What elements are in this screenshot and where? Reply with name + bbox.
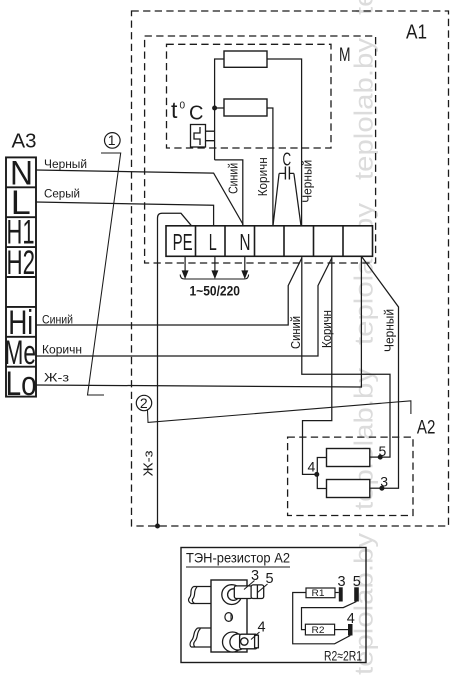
svg-text:Коричн: Коричн: [320, 310, 334, 348]
wire: windings left common: [215, 59, 224, 160]
legend schematic resistor R2: [305, 624, 334, 635]
wire L grey: A3.L to strip L: [36, 202, 214, 226]
svg-text:Серый: Серый: [44, 187, 80, 201]
heater terminal 3/5 (top): [222, 585, 264, 605]
wire + node 5: [370, 456, 380, 458]
wire Hi blue: A3.Hi to strip cell5: [36, 258, 302, 325]
legend terminal bar 4: [348, 624, 353, 636]
wire N black: A3.N to strip N: [36, 170, 243, 226]
svg-text:1~50/220: 1~50/220: [190, 282, 241, 298]
heater element R upper: [327, 449, 370, 467]
svg-text:C: C: [189, 103, 203, 125]
heater drawing: flange: [211, 580, 247, 652]
svg-text:Черный: Черный: [44, 157, 87, 171]
junction dot: earth to enclosure: [155, 524, 160, 529]
svg-text:0: 0: [180, 101, 186, 112]
legend terminal bar 3: [339, 587, 343, 601]
heater block A2 dashed box: [288, 437, 413, 515]
svg-text:М: М: [339, 44, 351, 66]
heater element R lower: [327, 480, 370, 498]
svg-text:3: 3: [380, 474, 388, 490]
enclosure A1 (dashed box): [132, 11, 449, 526]
svg-text:А3: А3: [12, 131, 37, 153]
capacitor C plates and leads: [273, 167, 301, 226]
svg-text:Синий: Синий: [289, 316, 303, 349]
svg-text:L: L: [209, 229, 217, 255]
heater drawing: tube lower: [190, 628, 211, 647]
svg-text:Черный: Черный: [301, 160, 315, 203]
svg-text:Коричн: Коричн: [256, 157, 270, 196]
svg-text:Lo: Lo: [6, 365, 37, 403]
terminal strip X1: [166, 226, 373, 256]
thermal protector symbol: [191, 125, 215, 148]
svg-text:H2: H2: [7, 244, 36, 282]
legend schematic resistor R1: [306, 588, 335, 598]
svg-text:3: 3: [251, 568, 259, 584]
wire PE / earth: strip PE down to chassis: [158, 213, 192, 526]
svg-text:5: 5: [353, 574, 361, 590]
legend schematic wires: [335, 592, 339, 594]
svg-text:Ж-з: Ж-з: [142, 450, 156, 476]
svg-text:Синий: Синий: [42, 312, 73, 326]
thermostat t°C label: [171, 97, 203, 125]
watermark teplolab.by column: [349, 0, 379, 675]
svg-text:PE: PE: [173, 229, 193, 255]
wire: winding L2 left lead: [215, 107, 224, 109]
svg-text:Синий: Синий: [227, 163, 241, 194]
svg-text:2: 2: [140, 395, 148, 411]
wire: blue motor lead to terminal N: [215, 160, 243, 226]
svg-text:teplolab.by: teplolab.by: [349, 0, 379, 15]
svg-text:R1: R1: [312, 588, 325, 598]
svg-text:Ж-з: Ж-з: [44, 371, 70, 385]
svg-text:3: 3: [338, 574, 346, 590]
legend box: [181, 548, 366, 663]
supply arrows below PE L N: [183, 256, 248, 277]
svg-text:4: 4: [347, 611, 355, 627]
svg-text:5: 5: [379, 443, 387, 459]
svg-text:4: 4: [308, 459, 316, 475]
svg-text:A1: A1: [406, 22, 427, 44]
svg-text:R2≈2R1: R2≈2R1: [324, 648, 362, 664]
svg-text:teplolab.by: teplolab.by: [349, 38, 379, 180]
wire: node 4 common: [317, 458, 326, 489]
svg-text:t: t: [171, 97, 178, 123]
svg-text:ТЭН-резистор А2: ТЭН-резистор А2: [186, 550, 290, 566]
svg-text:C: C: [283, 149, 292, 170]
motor winding L1: [224, 51, 267, 67]
motor M dashed box: [167, 44, 332, 148]
wire: strip cell6 to A2 node 4: [303, 256, 332, 474]
heater terminal 4 (bottom): [223, 632, 259, 652]
wire: black motor lead (winding L1 right) to terminal cell5: [267, 59, 302, 226]
junction dot motor common: [212, 106, 217, 111]
node 4 dot: [314, 472, 319, 477]
svg-text:Черный: Черный: [383, 309, 397, 352]
wire: strip cell5 down (blue) to A3.Hi riser: [302, 256, 390, 457]
motor winding L2: [224, 99, 267, 116]
svg-text:N: N: [240, 229, 251, 255]
svg-text:R2: R2: [312, 625, 325, 635]
wire Me brown: A3.Me to strip cell6: [36, 258, 332, 356]
wire Lo yellow-green: A3.Lo to strip cell7: [36, 256, 361, 387]
wire + node 3: [370, 487, 382, 489]
wire: brown motor lead (winding L2 right) to terminal cell4: [267, 108, 273, 226]
svg-text:Коричн: Коричн: [42, 342, 82, 356]
wire: strip cell7 black to A2 node 3: [361, 256, 398, 488]
A3 terminal letters: [5, 154, 37, 403]
note leader 2: [136, 395, 411, 423]
legend terminal bar 5: [354, 587, 359, 601]
inner unit dashed box: [145, 36, 376, 263]
heater drawing: tube upper: [189, 587, 211, 604]
svg-text:1: 1: [108, 132, 116, 148]
note leader 1: [88, 132, 121, 395]
supply bracket: [180, 275, 248, 280]
svg-text:A2: A2: [417, 417, 436, 439]
flange hole: [225, 613, 233, 622]
